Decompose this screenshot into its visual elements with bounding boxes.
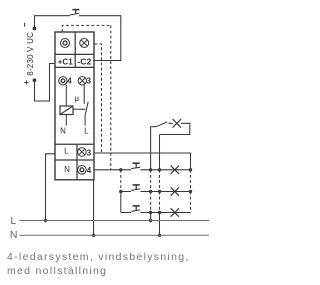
wire row1 right part [140, 169, 190, 171]
svg-text:N: N [60, 127, 66, 136]
push button PB2 actuator [133, 162, 140, 164]
push button PB4 blade [131, 210, 140, 211]
wire row3 right part [140, 212, 190, 214]
internal contact blade [85, 102, 88, 115]
dashed control wire D3 from -C2 [95, 44, 102, 153]
junction dot row3 lamp chain [158, 211, 161, 214]
wire lamp top return [160, 123, 190, 134]
wire lamp chain dashed row2-row3 [159, 192, 161, 213]
caption text [7, 250, 190, 279]
supply plus terminal dot [33, 78, 37, 82]
divider above L row [55, 143, 94, 145]
minus label [24, 23, 26, 27]
switch S1 blade [156, 122, 167, 127]
wire lamp right riser dashed row2-row3 [190, 192, 192, 213]
internal contact lower lead [84, 115, 86, 126]
wire coil to N [65, 115, 67, 126]
coil-contact linkage [73, 108, 85, 110]
wire button chain dashed [120, 170, 122, 192]
svg-text:8-230 V UC: 8-230 V UC [26, 32, 35, 76]
internal contact 4 symbol [59, 77, 67, 85]
wire minus top to right [79, 16, 121, 61]
svg-text:3: 3 [87, 77, 92, 86]
wire V2 dashed row2-row3 [150, 192, 152, 213]
dashed control wire D1 from box top [62, 25, 111, 169]
svg-text:L: L [84, 127, 89, 136]
wire X4 row1 [94, 169, 131, 171]
wire lamp chain to N bus [159, 213, 161, 236]
svg-text:+C1: +C1 [58, 57, 73, 66]
plus label [24, 80, 28, 84]
push button PB2 blade [131, 167, 140, 168]
junction dot row3 V2 [149, 211, 152, 214]
svg-text:L: L [10, 215, 16, 227]
device box outline [55, 32, 94, 180]
internal contact 3 symbol [78, 77, 86, 85]
junction dot row1 btn chain [119, 168, 122, 171]
svg-text:4: 4 [67, 77, 72, 86]
push button PB1 blade [70, 13, 79, 15]
L bus [20, 220, 210, 222]
wire minus riser [35, 16, 71, 29]
junction dot V2 L bus [149, 219, 152, 222]
wire row2 [121, 191, 131, 193]
svg-text:L: L [64, 147, 69, 156]
push button PB3 actuator [133, 184, 140, 186]
push button PB4 actuator [133, 205, 140, 207]
switch S1 wire stub [151, 126, 157, 128]
relay coil K1 [60, 106, 73, 115]
junction dot row1 V2 [149, 168, 152, 171]
internal contact upper lead [83, 85, 85, 104]
svg-text:N: N [64, 165, 70, 174]
terminal +C1 symbol [61, 39, 70, 48]
divider below +C1 -C2 labels [55, 66, 94, 68]
wire row2 right part [140, 191, 190, 193]
wire lamp top lead [168, 122, 172, 124]
svg-text:4: 4 [87, 166, 92, 175]
wire lamp chain top [159, 135, 161, 170]
wire button chain to row3 [120, 192, 122, 213]
junction dot row1 lamp chain [158, 168, 161, 171]
N bus [20, 234, 210, 236]
bottom rows cell divider [76, 144, 78, 180]
wire V2 dashed row1-row2 [150, 170, 152, 192]
lamp E1 row1 [171, 166, 179, 174]
wire N drop from box corner [93, 180, 95, 236]
junction dot row2 left [119, 190, 122, 193]
divider between L and N rows [55, 159, 94, 161]
wire coil feed [65, 85, 67, 106]
top cell divider [74, 32, 76, 67]
terminal -C2 symbol [80, 39, 89, 48]
junction dot row2 V2 [149, 190, 152, 193]
svg-text:3: 3 [87, 148, 92, 157]
wire L-out left stub [46, 154, 56, 221]
wire lamp chain dashed row1-row2 [159, 170, 161, 192]
junction dot lamp chain N bus [158, 234, 161, 237]
dashed control wire D2 drop [110, 25, 112, 169]
junction dot row2 lamp chain [158, 190, 161, 193]
wire lamp right riser dashed row1-row2 [190, 170, 192, 192]
terminal row symbol N [78, 166, 87, 175]
junction dot L bus [44, 219, 47, 222]
wire V2 to L bus [150, 213, 152, 221]
wire row3 [121, 212, 131, 214]
svg-text:µ: µ [74, 94, 79, 103]
divider below terminal symbols [55, 53, 94, 55]
push button PB1 actuator [72, 9, 79, 11]
supply minus terminal dot [33, 27, 37, 31]
wire V2 switch drop [150, 127, 152, 170]
junction dot N bus [92, 234, 95, 237]
svg-text:N: N [10, 229, 18, 241]
lamp E2 row2 [171, 187, 179, 195]
junction dot row2 right [189, 190, 192, 193]
wire X3 switched output [94, 153, 191, 170]
terminal row symbol L [78, 148, 87, 157]
svg-text:-C2: -C2 [77, 57, 91, 66]
junction dot row1 right [189, 168, 192, 171]
push button PB3 blade [131, 189, 140, 190]
wire plus to +C1 [35, 64, 56, 102]
lamp E3 row3 [171, 208, 179, 216]
lamp E4 top [173, 119, 181, 127]
